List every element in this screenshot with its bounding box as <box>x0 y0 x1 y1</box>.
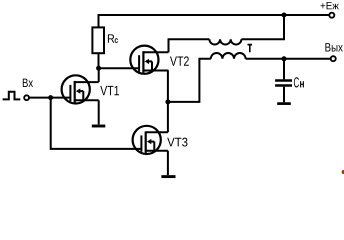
wire top supply rail <box>99 15 329 27</box>
terminal +Ezh <box>329 13 334 18</box>
wire secondary right to output node <box>246 58 284 60</box>
node output <box>282 56 287 61</box>
transformer T secondary winding <box>211 53 246 59</box>
label T <box>248 44 253 52</box>
wire output node to terminal <box>284 58 330 60</box>
transistor VT3 <box>133 126 168 154</box>
wire primary right to rail <box>241 15 284 39</box>
node VT2 source/VT3 drain/secondary <box>165 99 170 104</box>
label Cn <box>294 77 299 87</box>
node rail/primary <box>282 13 287 18</box>
wire node to VT2 gate <box>99 67 140 69</box>
label Vyx <box>325 43 342 51</box>
node Rc/VT1 drain/VT2 gate <box>96 66 101 71</box>
wire resistor bottom to node <box>98 53 100 68</box>
node input <box>48 95 53 100</box>
ground under VT3 <box>161 175 175 178</box>
wire VT2 drain up and to transformer <box>169 39 210 52</box>
wire VT1 source to ground <box>98 100 100 124</box>
stray orange speck <box>342 170 344 174</box>
wire VT2 source / VT3 drain <box>167 71 169 133</box>
ground under VT1 <box>92 125 106 128</box>
label +Ezh <box>321 2 339 9</box>
terminal input <box>24 95 29 100</box>
label Rc <box>108 34 114 42</box>
wire input node down to VT3 gate <box>51 98 142 149</box>
capacitor Cn <box>275 59 292 103</box>
label Vx <box>23 79 33 87</box>
wire node to secondary left lead <box>168 59 211 102</box>
label VT1 <box>100 86 119 95</box>
terminal output <box>331 56 336 61</box>
label VT2 <box>170 56 189 65</box>
transistor VT1 <box>62 75 99 103</box>
resistor Rc <box>92 27 104 53</box>
transformer T primary winding <box>209 39 241 44</box>
label VT3 <box>167 138 187 147</box>
wire VT1 drain up <box>98 68 100 82</box>
input pulse icon <box>3 92 21 100</box>
transistor VT2 <box>130 46 168 74</box>
ground under capacitor <box>277 102 291 105</box>
wire VT3 source to ground <box>167 151 169 175</box>
wire input to VT1 gate <box>29 97 70 99</box>
